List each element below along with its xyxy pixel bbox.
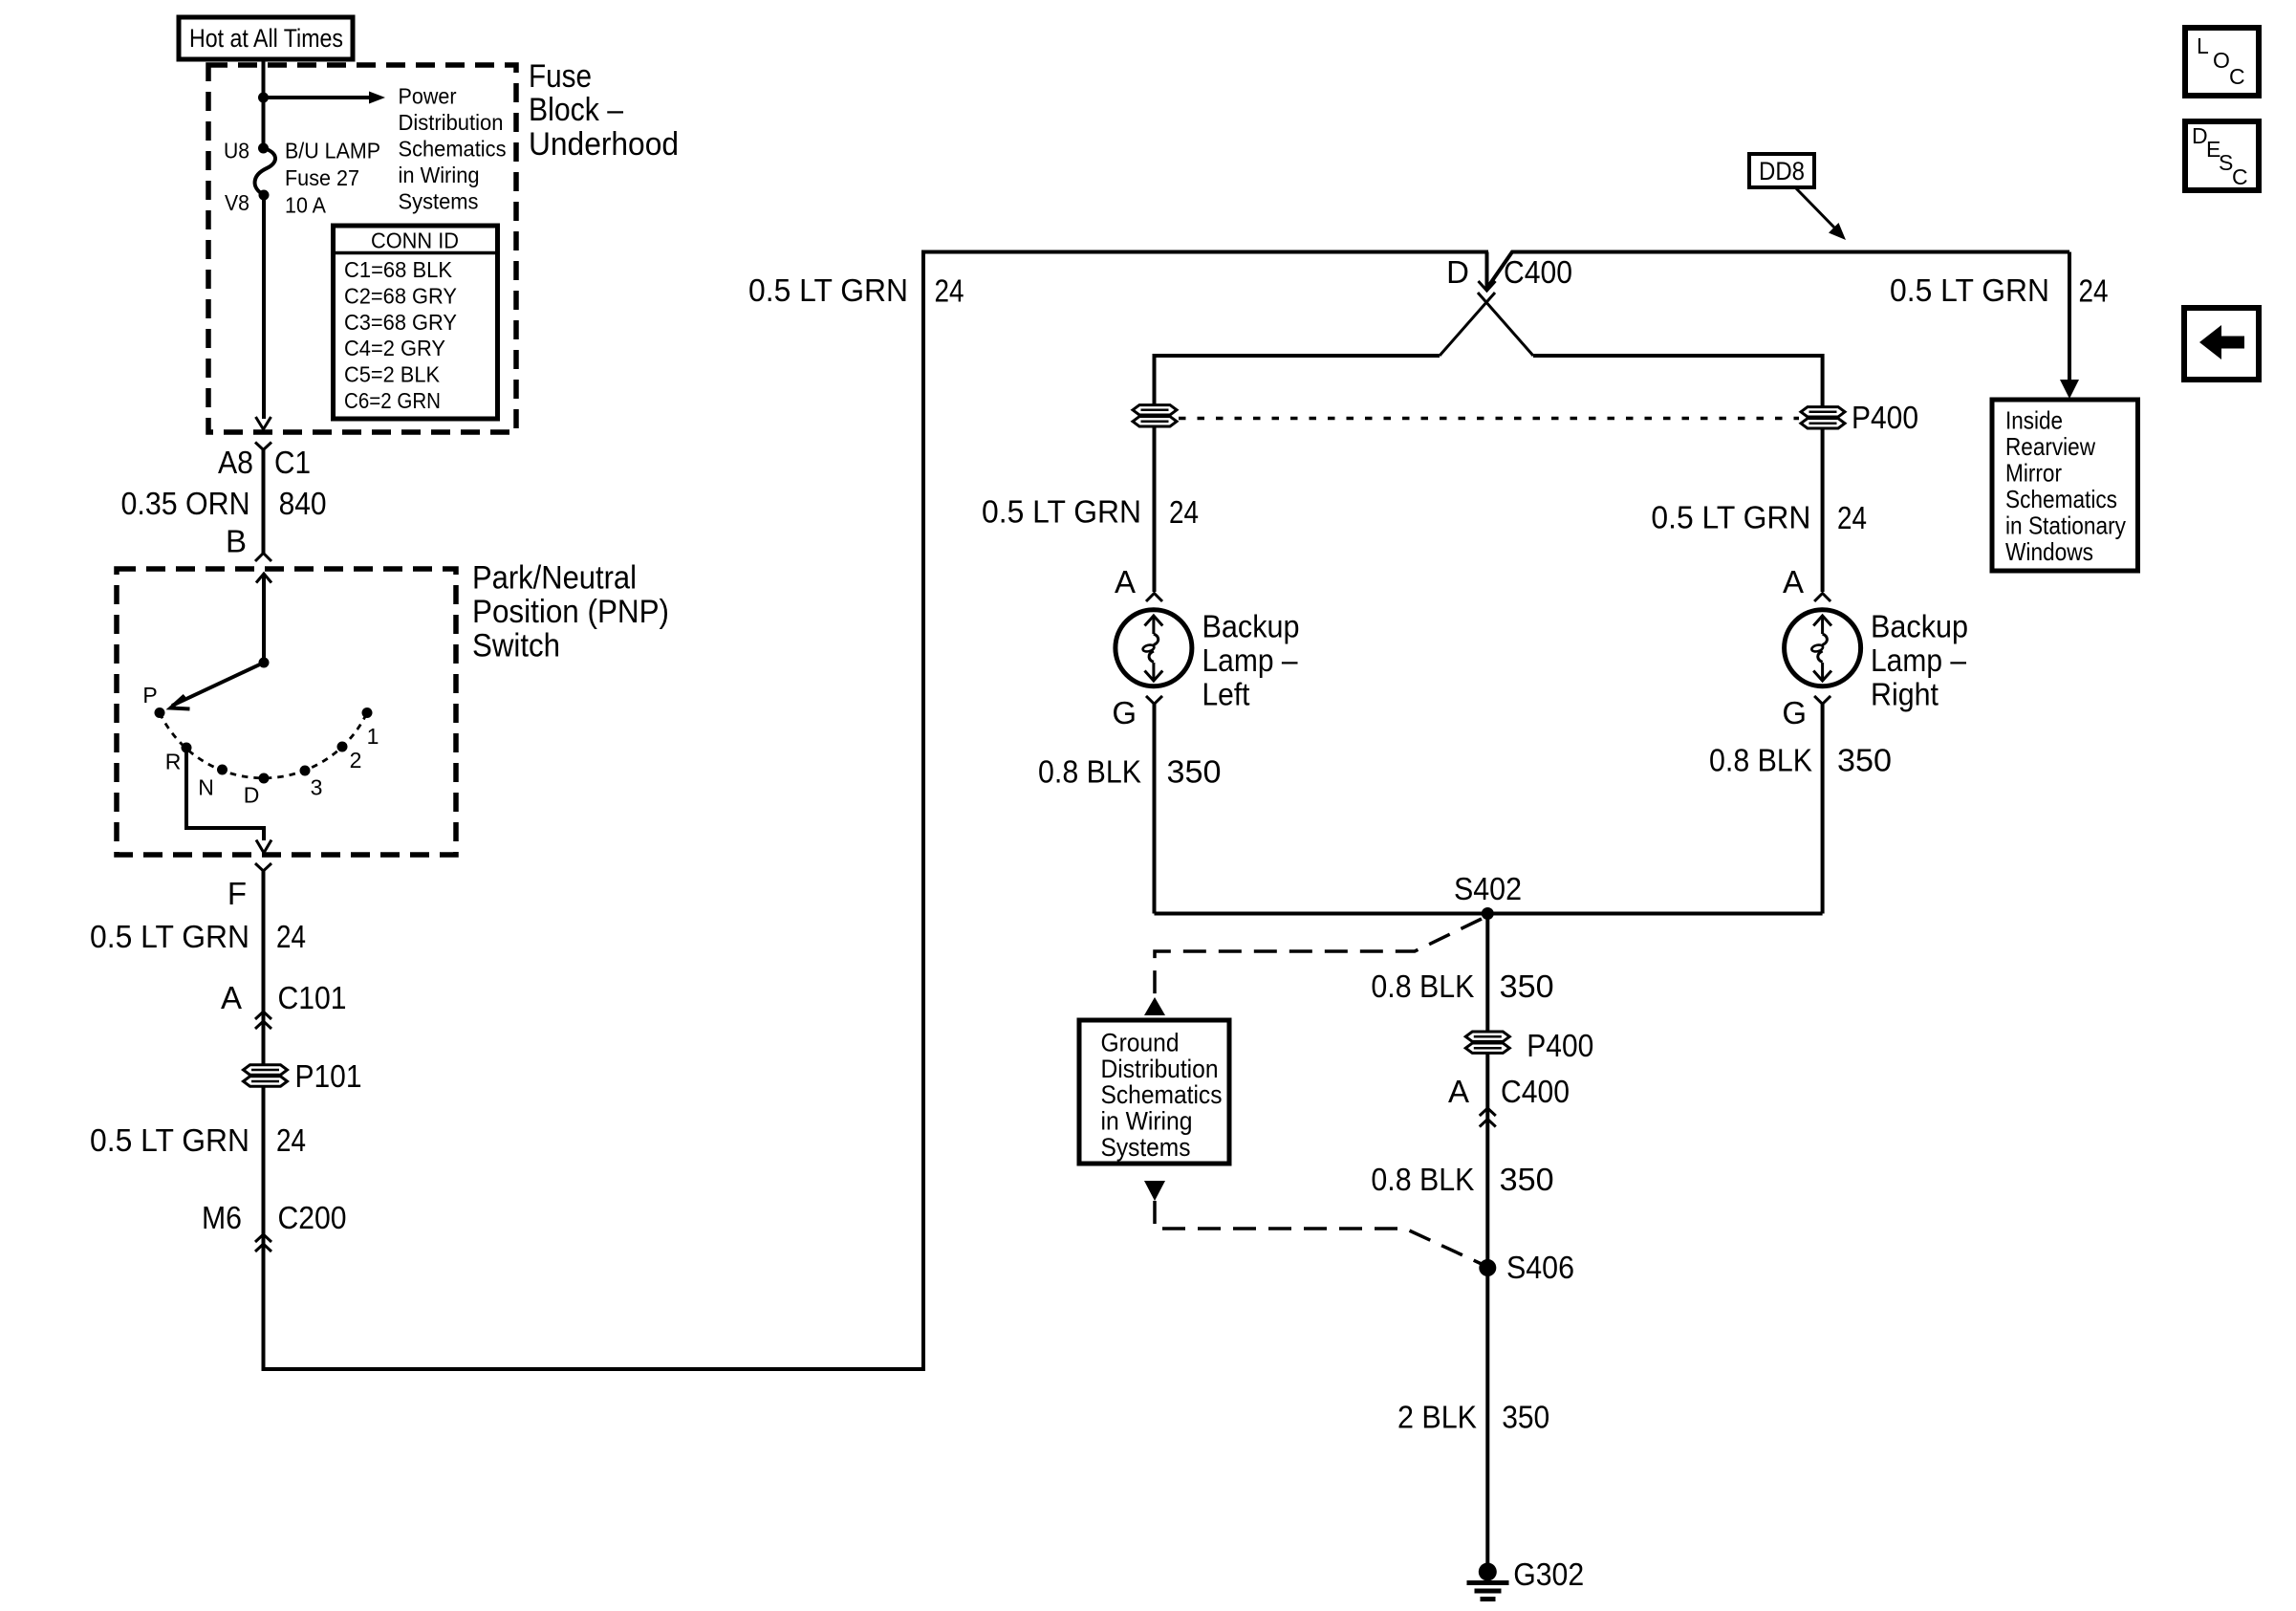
svg-text:2: 2 [350, 748, 362, 773]
svg-text:M6: M6 [202, 1200, 242, 1235]
svg-text:Windows: Windows [2005, 537, 2093, 566]
svg-text:Backup: Backup [1871, 608, 1968, 643]
svg-text:0.5 LT GRN: 0.5 LT GRN [1890, 272, 2049, 308]
svg-text:DD8: DD8 [1759, 157, 1805, 185]
svg-text:CONN ID: CONN ID [371, 229, 459, 253]
svg-text:24: 24 [1837, 500, 1867, 535]
svg-text:Inside: Inside [2005, 405, 2063, 434]
svg-text:R: R [165, 750, 182, 774]
svg-text:2 BLK: 2 BLK [1397, 1400, 1477, 1435]
svg-text:Systems: Systems [1101, 1133, 1191, 1162]
svg-text:1: 1 [367, 724, 379, 749]
svg-text:G: G [1782, 695, 1807, 730]
svg-text:G302: G302 [1513, 1557, 1584, 1592]
svg-text:C4=2 GRY: C4=2 GRY [344, 336, 445, 360]
svg-text:Distribution: Distribution [399, 110, 504, 135]
svg-text:C6=2 GRN: C6=2 GRN [344, 388, 441, 413]
svg-text:Position (PNP): Position (PNP) [472, 594, 669, 630]
svg-text:Schematics: Schematics [399, 137, 507, 162]
svg-text:Left: Left [1202, 677, 1250, 712]
svg-text:L: L [2197, 33, 2209, 58]
svg-text:D: D [1446, 254, 1469, 290]
svg-text:B: B [226, 523, 247, 558]
svg-text:Fuse: Fuse [529, 58, 592, 95]
svg-text:G: G [1112, 695, 1137, 730]
svg-text:0.5 LT GRN: 0.5 LT GRN [90, 1122, 249, 1158]
svg-text:A: A [1448, 1074, 1469, 1109]
svg-text:Hot at All Times: Hot at All Times [189, 24, 343, 53]
svg-text:0.8 BLK: 0.8 BLK [1371, 1162, 1474, 1197]
svg-text:V8: V8 [225, 190, 249, 215]
svg-text:B/U LAMP: B/U LAMP [285, 138, 380, 163]
svg-text:24: 24 [935, 273, 964, 309]
svg-text:24: 24 [1169, 494, 1199, 530]
svg-text:A8: A8 [218, 445, 253, 480]
svg-text:Backup: Backup [1202, 608, 1300, 643]
svg-text:C: C [2232, 164, 2248, 189]
svg-text:S402: S402 [1454, 871, 1522, 906]
svg-text:in Stationary: in Stationary [2005, 512, 2126, 540]
svg-text:24: 24 [2079, 273, 2109, 309]
svg-text:Mirror: Mirror [2005, 459, 2062, 488]
svg-text:in Wiring: in Wiring [1101, 1107, 1193, 1136]
svg-text:0.5 LT GRN: 0.5 LT GRN [90, 919, 249, 954]
svg-text:Fuse 27: Fuse 27 [285, 165, 359, 190]
svg-text:350: 350 [1837, 743, 1892, 778]
svg-text:350: 350 [1500, 969, 1554, 1004]
svg-text:C1: C1 [274, 445, 311, 480]
svg-text:Rearview: Rearview [2005, 432, 2095, 461]
svg-text:C400: C400 [1501, 1074, 1570, 1109]
svg-text:Power: Power [399, 84, 457, 109]
svg-text:0.35 ORN: 0.35 ORN [121, 486, 250, 521]
svg-text:Lamp –: Lamp – [1871, 642, 1967, 678]
svg-text:24: 24 [276, 919, 306, 954]
svg-text:P: P [142, 683, 157, 708]
svg-text:10 A: 10 A [285, 193, 327, 218]
svg-text:U8: U8 [224, 138, 249, 163]
svg-text:in Wiring: in Wiring [399, 163, 480, 187]
svg-text:D: D [244, 783, 260, 808]
svg-text:C: C [2229, 64, 2245, 89]
svg-text:Park/Neutral: Park/Neutral [472, 560, 637, 597]
svg-text:A: A [221, 980, 242, 1015]
svg-text:350: 350 [1167, 754, 1222, 790]
svg-text:Systems: Systems [399, 189, 479, 214]
svg-text:350: 350 [1502, 1400, 1549, 1435]
svg-text:3: 3 [311, 775, 323, 800]
svg-text:Right: Right [1871, 677, 1939, 712]
svg-text:Schematics: Schematics [1101, 1080, 1223, 1109]
svg-text:P400: P400 [1852, 400, 1918, 435]
svg-text:350: 350 [1500, 1162, 1554, 1197]
svg-text:Schematics: Schematics [2005, 485, 2117, 513]
svg-text:Underhood: Underhood [529, 126, 679, 163]
svg-text:O: O [2213, 48, 2230, 73]
svg-text:840: 840 [279, 486, 327, 521]
svg-text:Distribution: Distribution [1101, 1055, 1219, 1083]
svg-text:0.8 BLK: 0.8 BLK [1371, 969, 1474, 1004]
svg-text:S406: S406 [1506, 1250, 1574, 1285]
svg-text:0.8 BLK: 0.8 BLK [1038, 754, 1141, 790]
svg-text:F: F [227, 876, 247, 911]
svg-text:Lamp –: Lamp – [1202, 642, 1299, 678]
svg-text:0.5 LT GRN: 0.5 LT GRN [982, 494, 1141, 530]
svg-text:0.5 LT GRN: 0.5 LT GRN [1651, 500, 1810, 535]
svg-text:24: 24 [276, 1122, 306, 1158]
svg-text:A: A [1115, 564, 1136, 599]
svg-text:C400: C400 [1504, 254, 1572, 290]
svg-text:Block –: Block – [529, 92, 623, 128]
svg-text:C101: C101 [278, 980, 347, 1015]
svg-text:P101: P101 [295, 1058, 362, 1094]
svg-text:Switch: Switch [472, 628, 560, 664]
svg-text:P400: P400 [1527, 1028, 1593, 1063]
svg-text:C3=68 GRY: C3=68 GRY [344, 310, 457, 335]
svg-text:C2=68 GRY: C2=68 GRY [344, 283, 457, 308]
svg-text:C1=68 BLK: C1=68 BLK [344, 257, 453, 282]
svg-text:0.5 LT GRN: 0.5 LT GRN [748, 272, 908, 308]
svg-text:Ground: Ground [1101, 1028, 1180, 1056]
svg-text:C200: C200 [278, 1200, 347, 1235]
svg-text:0.8 BLK: 0.8 BLK [1709, 743, 1812, 778]
svg-text:C5=2 BLK: C5=2 BLK [344, 362, 441, 387]
svg-text:N: N [198, 775, 214, 800]
svg-text:A: A [1783, 564, 1804, 599]
